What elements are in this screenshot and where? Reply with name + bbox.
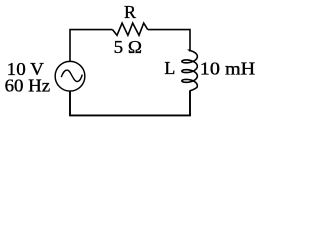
svg-text:5 Ω: 5 Ω bbox=[114, 37, 142, 57]
svg-text:60 Hz: 60 Hz bbox=[5, 75, 51, 95]
wire: source top to top rail to resistor left lead bbox=[70, 30, 113, 61]
AC source sine wave bbox=[61, 70, 82, 81]
wire: inductor bottom, bottom rail, up to source bottom bbox=[70, 90, 190, 115]
wire: resistor right lead to right rail down to inductor top bbox=[148, 30, 190, 52]
svg-text:L: L bbox=[164, 58, 175, 78]
AC source V1 circle bbox=[55, 61, 85, 91]
svg-text:10 mH: 10 mH bbox=[200, 59, 255, 79]
svg-text:R: R bbox=[124, 2, 136, 22]
inductor L1 coil bbox=[182, 51, 198, 91]
resistor R bbox=[113, 23, 148, 35]
